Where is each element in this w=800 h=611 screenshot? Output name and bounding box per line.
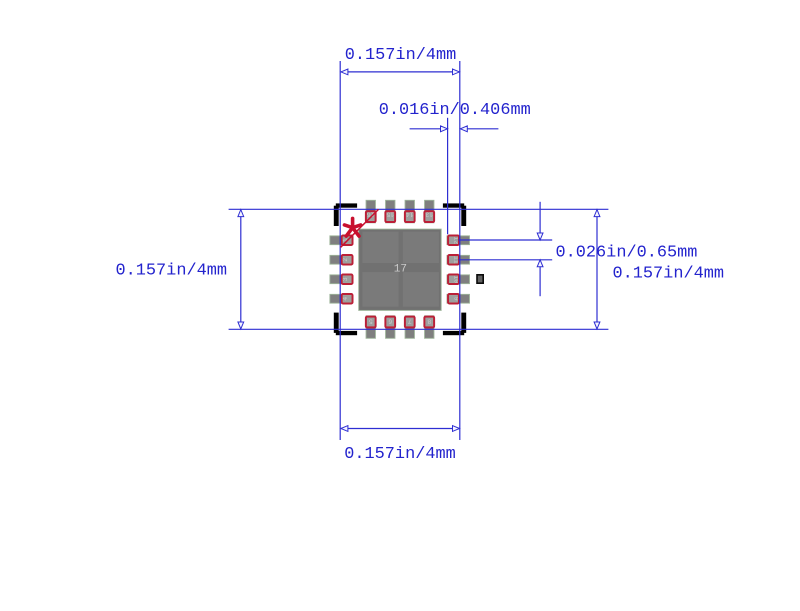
thermal pad quadrant BR bbox=[403, 272, 439, 307]
pad 6 inner bbox=[386, 317, 394, 326]
pad 16 inner bbox=[367, 212, 375, 221]
pad 12 inner bbox=[449, 236, 458, 244]
svg-text:0.016in/0.406mm: 0.016in/0.406mm bbox=[379, 101, 531, 120]
pad 14 paste fill bbox=[405, 211, 415, 222]
pad 3 land outline bbox=[342, 275, 353, 284]
pad 14 land outline bbox=[405, 211, 415, 222]
extension line body bottom bbox=[229, 328, 609, 330]
extension line right body edge bbox=[459, 61, 461, 440]
svg-text:0.026in/0.65mm: 0.026in/0.65mm bbox=[556, 244, 698, 263]
pad 4 lead bbox=[330, 294, 353, 303]
pad 15 land outline bbox=[385, 211, 395, 222]
extension line pad13 left edge bbox=[447, 118, 449, 235]
pad 11 paste fill bbox=[448, 255, 459, 264]
dimension line bottom 4mm bbox=[341, 428, 459, 430]
dimension line left 4mm bbox=[240, 210, 242, 329]
pad 9 land outline bbox=[448, 294, 459, 303]
pad 12 lead bbox=[447, 236, 470, 245]
pad 16 lead bbox=[366, 200, 375, 223]
pad 12 paste fill bbox=[448, 236, 459, 245]
pad 3 inner bbox=[343, 275, 352, 283]
pad 12 land outline bbox=[448, 236, 459, 245]
svg-text:0.157in/4mm: 0.157in/4mm bbox=[344, 445, 456, 464]
dimension line pad width 0.406mm left segment bbox=[410, 128, 448, 130]
dimension line right 4mm bbox=[596, 210, 598, 329]
pad 11 lead bbox=[447, 255, 470, 264]
svg-text:0.157in/4mm: 0.157in/4mm bbox=[116, 262, 228, 281]
pad 10 paste fill bbox=[448, 275, 459, 284]
pad 4 inner bbox=[343, 295, 352, 303]
svg-text:0.157in/4mm: 0.157in/4mm bbox=[345, 46, 457, 65]
pad 4 land outline bbox=[342, 294, 353, 303]
pad 11 land outline bbox=[448, 255, 459, 264]
pad 15 inner bbox=[386, 212, 394, 221]
corner bracket bottom-left bbox=[334, 313, 357, 336]
pad 9 inner bbox=[449, 295, 458, 303]
pad 10 lead bbox=[447, 275, 470, 284]
pad 13 land outline bbox=[424, 211, 434, 222]
svg-text:6: 6 bbox=[388, 318, 392, 325]
pad 1 lead bbox=[330, 236, 353, 245]
svg-text:2: 2 bbox=[342, 258, 349, 262]
pad 16 land outline bbox=[366, 211, 376, 222]
corner bracket top-right bbox=[443, 203, 466, 226]
pad 2 lead bbox=[330, 255, 353, 264]
pad 5 paste fill bbox=[366, 317, 376, 328]
pad 13 inner bbox=[425, 212, 433, 221]
pad 3 lead bbox=[330, 275, 353, 284]
thermal pad quadrant BL bbox=[362, 272, 398, 307]
pad 7 paste fill bbox=[405, 317, 415, 328]
extension line pad11 center bbox=[459, 259, 553, 261]
svg-text:8: 8 bbox=[427, 318, 431, 325]
pad 8 inner bbox=[425, 317, 433, 326]
pad 15 lead bbox=[386, 200, 395, 223]
pad 14 lead bbox=[405, 200, 414, 223]
via pad right of body bbox=[477, 275, 483, 283]
pad 9 paste fill bbox=[448, 294, 459, 303]
pad 16 paste fill bbox=[366, 211, 376, 222]
pad 8 land outline bbox=[424, 317, 434, 328]
thermal pad 17 base bbox=[359, 229, 442, 310]
svg-text:7: 7 bbox=[408, 318, 412, 325]
pad 14 inner bbox=[406, 212, 414, 221]
pad 8 lead bbox=[425, 316, 434, 339]
pad 7 land outline bbox=[405, 317, 415, 328]
svg-text:0.157in/4mm: 0.157in/4mm bbox=[613, 264, 725, 283]
pad 6 paste fill bbox=[385, 317, 395, 328]
pad 5 lead bbox=[366, 316, 375, 339]
pad 7 inner bbox=[406, 317, 414, 326]
svg-text:3: 3 bbox=[342, 277, 349, 281]
pad 7 lead bbox=[405, 316, 414, 339]
pad 8 paste fill bbox=[424, 317, 434, 328]
dimension line pad width 0.406mm right segment bbox=[461, 128, 499, 130]
pad 1 inner bbox=[343, 236, 352, 244]
pad 4 paste fill bbox=[342, 294, 353, 303]
pad 6 land outline bbox=[385, 317, 395, 328]
pin 1 asterisk marker bbox=[344, 218, 360, 236]
pad 5 land outline bbox=[366, 317, 376, 328]
corner bracket top-left bbox=[334, 203, 357, 226]
extension line pad12 center bbox=[459, 239, 553, 241]
svg-text:17: 17 bbox=[394, 263, 407, 275]
pad 1 paste fill bbox=[342, 236, 353, 245]
pad 1 land outline bbox=[342, 236, 353, 245]
pad 3 paste fill bbox=[342, 275, 353, 284]
dimension line pitch 0.65mm lower segment bbox=[539, 260, 541, 296]
pad 13 paste fill bbox=[424, 211, 434, 222]
pad 10 land outline bbox=[448, 275, 459, 284]
pad 2 paste fill bbox=[342, 255, 353, 264]
pad 10 inner bbox=[449, 275, 458, 283]
pad 11 inner bbox=[449, 256, 458, 264]
pad 2 inner bbox=[343, 256, 352, 264]
pad 15 paste fill bbox=[385, 211, 395, 222]
pad 13 lead bbox=[425, 200, 434, 223]
thermal pad quadrant TR bbox=[403, 232, 439, 263]
pad 5 inner bbox=[367, 317, 375, 326]
dimension line top 4mm bbox=[341, 71, 459, 73]
pin 1 chamfer line bbox=[341, 209, 379, 247]
pad 6 lead bbox=[386, 316, 395, 339]
svg-text:5: 5 bbox=[369, 318, 373, 325]
corner bracket bottom-right bbox=[443, 313, 466, 336]
thermal pad quadrant TL bbox=[362, 232, 398, 263]
pad 2 land outline bbox=[342, 255, 353, 264]
svg-text:4: 4 bbox=[342, 297, 349, 301]
dimension line pitch 0.65mm upper segment bbox=[539, 202, 541, 240]
extension line body top bbox=[229, 208, 609, 210]
extension line left body edge bbox=[339, 61, 341, 440]
pad 9 lead bbox=[447, 294, 470, 303]
